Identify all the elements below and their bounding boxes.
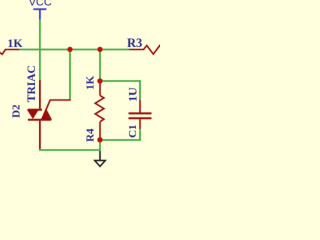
resistor R1 (clipped at left edge) zigzag and lead bbox=[0, 50, 20, 55]
svg-text:1K: 1K bbox=[85, 75, 97, 90]
svg-text:1K: 1K bbox=[7, 36, 23, 50]
wire: capacitor branch down to C1 top pin bbox=[139, 80, 141, 100]
wire: short vertical to ground net bbox=[99, 140, 101, 151]
node: junction dot at gate branch (70,49.4) bbox=[67, 47, 72, 52]
wire: VCC stem down to triac top pin bbox=[39, 20, 41, 81]
triac D2 bottom terminal bar bbox=[28, 119, 51, 121]
ground symbol stem bbox=[99, 151, 101, 161]
resistor R4 top lead bbox=[99, 83, 101, 96]
wire: main horizontal net at top bbox=[20, 49, 130, 51]
ground symbol triangle bbox=[95, 161, 106, 167]
power port VCC bar symbol bbox=[33, 9, 46, 19]
svg-text:R3: R3 bbox=[127, 36, 142, 50]
triac D2 right triangle (pointing up) bbox=[41, 110, 51, 120]
wire: capacitor branch bottom bbox=[139, 129, 141, 140]
sheet background bbox=[0, 0, 160, 170]
wire: bottom horizontal from ground node to capacitor bbox=[100, 139, 141, 141]
node: junction dot at (100,81) bbox=[97, 78, 102, 83]
node: junction dot at R4 branch (100,49.4) bbox=[97, 47, 102, 52]
capacitor C1 bottom pin bbox=[139, 119, 141, 129]
svg-text:TRIAC: TRIAC bbox=[26, 65, 38, 102]
triac D2 left triangle (pointing down) bbox=[28, 110, 38, 118]
wire: gate branch vertical bbox=[69, 50, 71, 100]
capacitor C1 top plate bbox=[129, 112, 152, 114]
svg-text:D2: D2 bbox=[11, 104, 23, 118]
svg-text:VCC: VCC bbox=[29, 0, 52, 9]
capacitor C1 bottom plate bbox=[129, 117, 152, 119]
wire: bottom horizontal to triac MT1 bbox=[39, 149, 100, 151]
resistor R4 zigzag bbox=[95, 96, 104, 122]
resistor R3 lead and zigzag (clipped at right edge) bbox=[129, 46, 163, 55]
triac D2 pin MT2 (top) bbox=[39, 80, 41, 109]
resistor R4 bottom lead bbox=[99, 122, 101, 138]
triac D2 gate lead bbox=[42, 100, 71, 119]
svg-text:1U: 1U bbox=[125, 87, 139, 102]
wire: branch down to R4 / C1 node bbox=[99, 50, 101, 82]
triac D2 pin MT1 (bottom) bbox=[39, 121, 41, 150]
wire: horizontal to capacitor branch bbox=[100, 80, 140, 82]
node: junction dot at ground node (100,139.8) bbox=[97, 137, 102, 142]
triac D2 top terminal bar bbox=[28, 109, 42, 111]
svg-text:C1: C1 bbox=[127, 124, 139, 137]
capacitor C1 top pin bbox=[139, 100, 141, 113]
svg-text:R4: R4 bbox=[85, 128, 97, 142]
